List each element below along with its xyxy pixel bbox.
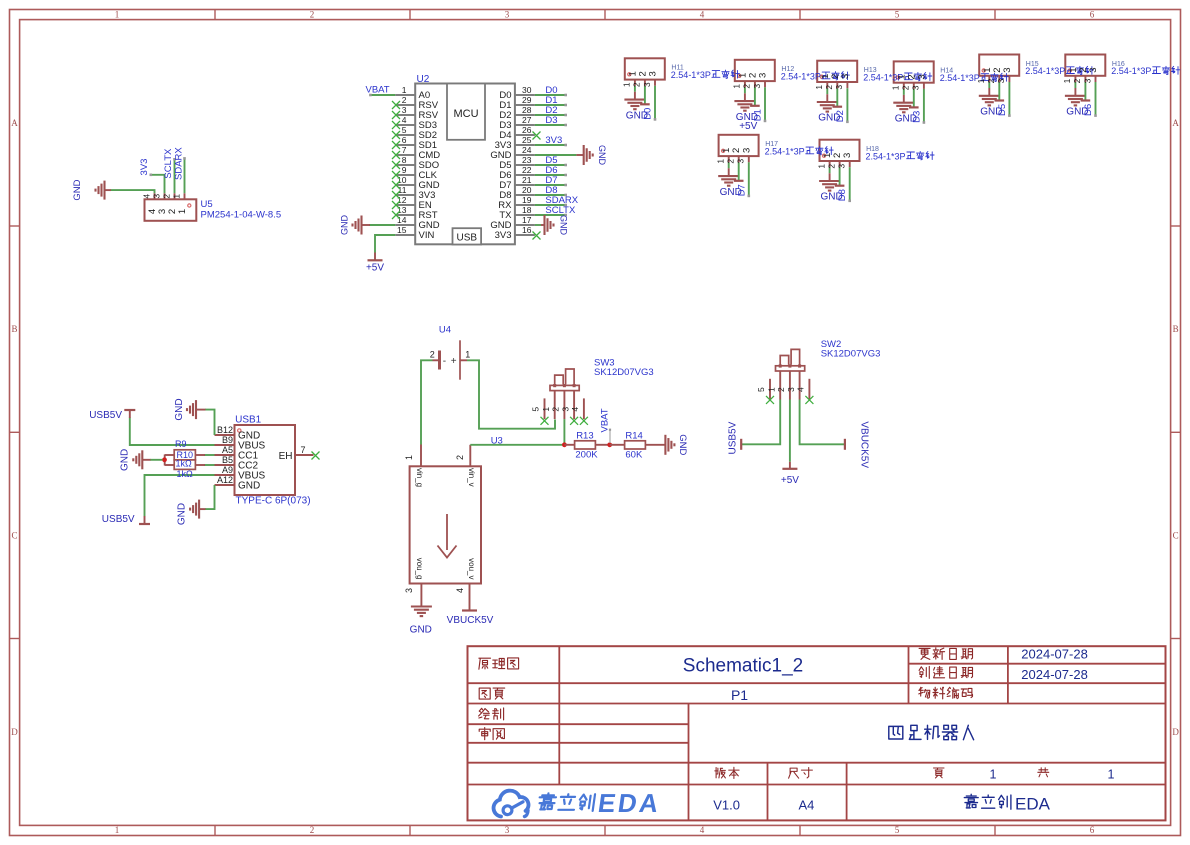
ground flag text at H15.1: [980, 107, 1002, 118]
svg-text:19: 19: [522, 195, 532, 205]
svg-text:6: 6: [1090, 825, 1095, 835]
svg-text:2: 2: [826, 164, 836, 169]
H15 value 2.54-1*3P header name: [1025, 66, 1094, 76]
ground flag text at H12.1: [736, 112, 758, 123]
power flag USB5V bottom: [102, 514, 150, 525]
svg-text:R13: R13: [576, 430, 593, 441]
svg-text:1: 1: [814, 85, 824, 90]
svg-text:1: 1: [716, 159, 726, 164]
connector USB1 TYPE-C 6P(073): [215, 425, 314, 495]
title label: reviewed by: [479, 728, 504, 740]
title label: sheet type: [479, 658, 519, 669]
ground symbol at H17.1: [718, 168, 739, 185]
svg-text:2.54-1*3P: 2.54-1*3P: [866, 151, 906, 161]
svg-text:4: 4: [570, 407, 580, 412]
title label: version: [715, 767, 739, 778]
mcu U2: [395, 74, 535, 245]
svg-text:D0: D0: [643, 108, 654, 120]
svg-text:1: 1: [1062, 78, 1072, 83]
SW3 designator: [594, 358, 615, 369]
svg-text:18: 18: [522, 205, 532, 215]
svg-text:1kΩ: 1kΩ: [177, 469, 194, 479]
svg-text:vin_v: vin_v: [467, 468, 476, 487]
svg-text:2024-07-28: 2024-07-28: [1021, 647, 1088, 662]
power flag VBUCK5V at U3.4: [447, 603, 494, 626]
ground flag at U3.3: [410, 603, 432, 636]
net label D6 (rotated): [1083, 104, 1094, 116]
svg-text:2: 2: [402, 95, 407, 105]
svg-text:GND: GND: [410, 625, 432, 636]
svg-text:GND: GND: [677, 434, 688, 455]
svg-text:GND: GND: [120, 449, 131, 471]
wire U4.1 to SW3.1: [467, 360, 555, 428]
svg-text:3: 3: [642, 82, 652, 87]
battery U4: [430, 340, 471, 379]
R13 designator: [576, 430, 593, 441]
wire H16.3 to net D6: [1094, 82, 1097, 117]
svg-text:V1.0: V1.0: [713, 798, 740, 813]
svg-text:4: 4: [796, 387, 806, 392]
svg-text:GND: GND: [238, 481, 260, 492]
svg-text:3: 3: [736, 159, 746, 164]
svg-text:SDARX: SDARX: [174, 147, 185, 180]
svg-text:VIN: VIN: [419, 230, 435, 241]
svg-text:6: 6: [402, 135, 407, 145]
title value: update date 2024-07-28: [1021, 647, 1088, 662]
no-connect marks U2 pins 26,16: [533, 132, 541, 240]
net label SCLTX (rotated): [163, 148, 174, 179]
svg-text:2: 2: [632, 82, 642, 87]
svg-text:GND: GND: [597, 145, 607, 166]
junction VBAT divider left: [562, 442, 567, 447]
ground flag at U2.24: [576, 145, 607, 166]
svg-text:3: 3: [834, 85, 844, 90]
net label D5 (rotated): [997, 104, 1008, 116]
H14 designator label: [940, 68, 953, 75]
svg-text:2.54-1*3P: 2.54-1*3P: [765, 147, 805, 157]
svg-text:2.54-1*3P: 2.54-1*3P: [1111, 66, 1151, 76]
svg-text:USB5V: USB5V: [102, 514, 135, 525]
svg-text:2: 2: [742, 84, 752, 89]
svg-text:3: 3: [560, 407, 570, 412]
svg-text:vou_g: vou_g: [415, 558, 424, 580]
svg-text:2: 2: [455, 455, 465, 460]
ground symbol at H12.1: [734, 93, 755, 110]
svg-text:B9: B9: [222, 435, 233, 445]
svg-text:EDA: EDA: [1015, 795, 1051, 814]
svg-text:4: 4: [402, 115, 407, 125]
no-connect marks U2 left pins 2-13: [392, 101, 400, 219]
connector U5 PM254-1-04-W-8.5: [141, 193, 196, 221]
regulator U3: [404, 445, 481, 604]
svg-text:1: 1: [732, 84, 742, 89]
connector H13 (2.54 1x3 header): [817, 61, 857, 88]
wire H14.3 to net D3: [923, 89, 926, 124]
H12 value 2.54-1*3P header name: [781, 72, 850, 82]
JLCEDA logo text: [537, 788, 663, 818]
svg-text:2: 2: [430, 350, 435, 360]
net label VBAT: [366, 85, 390, 96]
svg-text:1: 1: [115, 10, 120, 20]
svg-text:3: 3: [911, 85, 921, 90]
svg-text:1: 1: [766, 387, 776, 392]
svg-text:2: 2: [824, 85, 834, 90]
net label SDARX: [545, 195, 578, 206]
svg-text:2.54-1*3P: 2.54-1*3P: [940, 73, 980, 83]
ground flag at U5.4: [72, 179, 111, 200]
svg-text:B: B: [1173, 324, 1179, 334]
power flag VBUCK5V at SW2.3: [845, 421, 870, 468]
svg-text:6: 6: [1090, 10, 1095, 20]
ground flag text at H18.1: [821, 192, 843, 203]
svg-text:EH: EH: [279, 451, 293, 462]
svg-text:200K: 200K: [575, 450, 598, 461]
ground symbol at H14.1: [893, 95, 914, 112]
net label D7 (rotated): [736, 184, 747, 196]
no-connect marks SW3 pins 5,3,4: [541, 417, 588, 425]
svg-text:1kΩ: 1kΩ: [176, 459, 193, 469]
svg-text:60K: 60K: [625, 450, 643, 461]
ground flag text at H13.1: [818, 113, 840, 124]
svg-text:+5V: +5V: [739, 121, 757, 132]
wire H16.2 to +5V flag bar: [1081, 82, 1091, 101]
svg-text:GND: GND: [559, 215, 569, 236]
wire H11.2 to +5V flag bar: [640, 86, 650, 105]
svg-text:3: 3: [916, 74, 927, 79]
wire H16.1 to GND: [1074, 82, 1076, 88]
svg-text:1: 1: [990, 768, 997, 782]
H16 designator label: [1112, 61, 1125, 68]
JLCEDA logo cloud: [494, 791, 529, 817]
power flag +5V at SW2.2: [781, 462, 799, 486]
svg-text:2: 2: [310, 825, 315, 835]
svg-text:3: 3: [842, 153, 853, 158]
wire USB1.B12 to GND: [205, 410, 215, 435]
resistor R14: [610, 441, 665, 449]
svg-text:GND: GND: [177, 503, 188, 525]
wire U2.15 to +5V: [375, 235, 395, 253]
U4 designator: [439, 325, 451, 336]
H17 value 2.54-1*3P header name: [765, 147, 834, 157]
power flag +5V text at H12.2: [739, 121, 757, 132]
no-connect marks SW2 pins 5,4: [766, 396, 813, 404]
svg-text:3: 3: [402, 105, 407, 115]
svg-text:3: 3: [151, 194, 161, 199]
svg-text:22: 22: [522, 165, 532, 175]
wire H13.1 to GND: [826, 88, 828, 94]
wire junction to GND: [150, 459, 162, 461]
wire USB1.B5 to R10: [204, 464, 215, 466]
connector H15 (2.54 1x3 header): [979, 55, 1019, 83]
svg-text:A12: A12: [217, 475, 233, 485]
wire SW2.3 to VBUCK5V: [800, 400, 845, 445]
net label D8 (rotated): [837, 189, 848, 201]
svg-text:-: -: [443, 356, 446, 367]
svg-text:3: 3: [404, 588, 414, 593]
svg-text:D2: D2: [835, 110, 846, 122]
SW2 designator: [821, 339, 842, 350]
svg-text:2: 2: [1072, 78, 1082, 83]
svg-text:24: 24: [522, 145, 532, 155]
net label D3: [545, 115, 557, 126]
wire U5.1 to SDARX: [183, 157, 186, 193]
wire USB1.A5 to R9: [204, 454, 215, 456]
wire H15.1 to GND: [988, 82, 990, 88]
svg-text:EDA: EDA: [596, 788, 663, 818]
H13 pin number texts: [814, 74, 851, 90]
svg-text:D8: D8: [837, 189, 848, 201]
svg-text:1: 1: [891, 85, 901, 90]
ground symbol at H13.1: [817, 94, 838, 111]
ground symbol at H15.1: [979, 88, 1000, 105]
net label VBAT stub: [609, 429, 611, 443]
H17 pin number texts: [716, 148, 753, 164]
svg-text:28: 28: [522, 105, 532, 115]
connector H11 (2.54 1x3 header): [625, 58, 665, 86]
ground flag text at H16.1: [1066, 107, 1088, 118]
svg-text:TYPE-C 6P(073): TYPE-C 6P(073): [236, 496, 311, 507]
H18 designator label: [866, 146, 879, 153]
H11 pin number texts: [622, 71, 659, 87]
svg-text:1: 1: [1108, 768, 1115, 782]
svg-text:29: 29: [522, 95, 532, 105]
svg-text:GND: GND: [340, 215, 350, 236]
H16 pin number texts: [1062, 67, 1099, 83]
svg-text:B: B: [11, 324, 17, 334]
svg-text:5: 5: [756, 387, 766, 392]
svg-text:4: 4: [700, 825, 705, 835]
svg-text:3: 3: [741, 148, 752, 153]
ground symbol at H18.1: [819, 173, 840, 190]
svg-text:2: 2: [901, 85, 911, 90]
connector H18 (2.54 1x3 header): [820, 140, 860, 168]
svg-text:B12: B12: [217, 425, 233, 435]
wire H13.2 to +5V flag bar: [833, 88, 843, 107]
svg-text:1: 1: [541, 407, 551, 412]
switch SW2 SK12D07VG3: [756, 349, 809, 399]
svg-text:25: 25: [522, 135, 532, 145]
wire H12.1 to GND: [744, 87, 746, 93]
svg-text:A4: A4: [798, 798, 814, 813]
svg-text:SCLTX: SCLTX: [163, 148, 174, 179]
wire H17.1 to GND: [728, 162, 730, 168]
wire H11.3 to net D0: [654, 86, 657, 121]
U5 value PM254-1-04-W-8.5: [201, 209, 282, 220]
wire U5.4 to GND: [111, 190, 155, 193]
H17 designator label: [765, 141, 778, 148]
svg-text:VBUCK5V: VBUCK5V: [447, 615, 494, 626]
svg-text:SK12D07VG3: SK12D07VG3: [594, 367, 654, 378]
wire U3.2 to R13 junction: [470, 444, 563, 446]
H11 designator label: [671, 65, 683, 72]
svg-text:U2: U2: [417, 74, 430, 85]
svg-text:+5V: +5V: [781, 475, 799, 486]
wire U2.30 to net D0: [535, 94, 567, 97]
svg-text:5: 5: [531, 407, 541, 412]
ground flag at USB1.A12: [177, 500, 206, 526]
wire SW2.2 to +5V: [789, 400, 791, 462]
R14 designator: [625, 430, 642, 441]
H12 designator label: [781, 66, 794, 73]
wire U2.25 to net 3V3: [535, 144, 567, 147]
svg-text:15: 15: [397, 225, 407, 235]
wire U2.24 to GND: [535, 154, 577, 156]
resistor R13: [564, 441, 609, 449]
svg-text:4: 4: [700, 10, 705, 20]
wire H17.3 to net D7: [748, 162, 751, 197]
junction R9/R10 common node: [162, 457, 167, 462]
wire H18.1 to GND: [829, 167, 831, 173]
svg-text:4: 4: [455, 588, 465, 593]
svg-text:U4: U4: [439, 325, 451, 336]
svg-text:3: 3: [837, 164, 847, 169]
svg-text:GND: GND: [72, 179, 83, 200]
svg-text:VBAT: VBAT: [600, 408, 611, 432]
ground symbol at H11.1: [624, 92, 645, 109]
svg-text:PM254-1-04-W-8.5: PM254-1-04-W-8.5: [201, 209, 282, 220]
net label D2: [545, 105, 557, 116]
H15 designator label: [1026, 61, 1039, 68]
ground flag text at H11.1: [626, 110, 648, 121]
title value: A4: [798, 798, 814, 813]
svg-text:8: 8: [402, 155, 407, 165]
title value: Schematic1_2: [683, 656, 803, 677]
H12 pin number texts: [732, 73, 769, 89]
R14 value 60K: [625, 450, 643, 461]
SW2 value SK12D07VG3: [821, 349, 881, 360]
resistor R10: [165, 455, 205, 470]
svg-text:3: 3: [1088, 67, 1099, 72]
wire H14.2 to +5V flag bar: [909, 89, 919, 108]
title label: page: [934, 768, 945, 778]
svg-text:2: 2: [726, 159, 736, 164]
svg-text:5: 5: [895, 10, 900, 20]
net label D1: [545, 95, 557, 106]
wire U4.2 to U3.1: [421, 360, 433, 444]
wire U5.2 to SCLTX: [173, 158, 176, 193]
wire H15.2 to +5V flag bar: [995, 82, 1005, 101]
wire U2.14 to GND: [369, 224, 395, 226]
wire SW2.1 to USB5V: [741, 400, 780, 445]
svg-text:3V3: 3V3: [139, 159, 150, 176]
svg-text:9: 9: [402, 165, 407, 175]
svg-text:USB5V: USB5V: [89, 410, 122, 421]
svg-text:5: 5: [402, 125, 407, 135]
svg-text:3: 3: [758, 73, 769, 78]
svg-text:3: 3: [840, 74, 851, 79]
title value: create date 2024-07-28: [1021, 667, 1088, 682]
svg-text:23: 23: [522, 155, 532, 165]
wire U5.3 to 3V3: [150, 174, 165, 194]
svg-text:3: 3: [505, 10, 510, 20]
svg-text:1: 1: [177, 209, 188, 214]
title label: drawn by: [479, 708, 504, 720]
net label SDARX (rotated): [174, 147, 185, 180]
U5 designator: [201, 199, 213, 210]
connector H14 (2.54 1x3 header): [894, 61, 934, 89]
title block table: [468, 646, 1166, 820]
svg-text:1: 1: [976, 78, 986, 83]
title value: P1: [731, 687, 748, 703]
net label VBAT (rotated): [600, 408, 611, 432]
net label D6: [545, 165, 557, 176]
title label: sheet page: [479, 688, 505, 699]
title value: page 1: [990, 768, 997, 782]
svg-text:+: +: [451, 356, 457, 367]
svg-text:D: D: [11, 727, 18, 737]
svg-text:2.54-1*3P: 2.54-1*3P: [781, 72, 821, 82]
wire U2.23 to net D5: [535, 164, 567, 167]
wire SW3.2 down to VBAT node: [563, 419, 565, 445]
svg-text:C: C: [1173, 531, 1179, 541]
net label D5: [545, 155, 557, 166]
title label: update date: [919, 648, 972, 660]
title value: V1.0: [713, 798, 740, 813]
USB1 designator: [235, 415, 262, 426]
H16 value 2.54-1*3P header name: [1111, 66, 1180, 76]
H14 pin number texts: [891, 74, 928, 90]
svg-text:1: 1: [404, 455, 414, 460]
resistor R9: [165, 450, 205, 460]
svg-text:1: 1: [622, 82, 632, 87]
svg-text:16: 16: [522, 225, 532, 235]
title value: total 1: [1108, 768, 1115, 782]
wire U2.18 to net SCLTX: [535, 214, 567, 217]
svg-text:D3: D3: [911, 111, 922, 123]
svg-text:A5: A5: [222, 445, 233, 455]
H14 value 2.54-1*3P header name: [940, 73, 1009, 83]
junction VBAT divider right: [607, 442, 612, 447]
wire U2.27 to net D3: [535, 124, 567, 127]
ground symbol at H16.1: [1065, 88, 1086, 105]
H13 value 2.54-1*3P header name: [863, 72, 932, 82]
wire H17.2 to +5V flag bar: [734, 162, 744, 181]
svg-text:USB: USB: [457, 233, 478, 244]
svg-text:1: 1: [402, 85, 407, 95]
title label: create date: [919, 667, 972, 679]
net label 3V3 (rotated): [139, 159, 150, 176]
wire H18.2 to +5V flag bar: [835, 167, 845, 186]
wire H15.3 to net D5: [1008, 82, 1011, 117]
svg-text:3: 3: [786, 387, 796, 392]
svg-text:11: 11: [398, 185, 407, 195]
R10 value 1k: [177, 469, 194, 479]
connector H12 (2.54 1x3 header): [735, 60, 775, 88]
svg-text:27: 27: [522, 115, 532, 125]
svg-text:P1: P1: [731, 687, 748, 703]
wire USB1.A12 to GND: [205, 485, 215, 509]
wire H12.3 to net D1: [764, 87, 767, 122]
ground flag at USB1.B12: [174, 398, 206, 420]
svg-text:3: 3: [648, 71, 659, 76]
svg-text:3V3: 3V3: [495, 230, 512, 241]
title label: BOM code: [919, 687, 973, 699]
R13 value 200K: [575, 450, 598, 461]
svg-text:2: 2: [310, 10, 315, 20]
svg-text:B5: B5: [222, 455, 233, 465]
net label D2 (rotated): [835, 110, 846, 122]
ground flag right of R14: [665, 434, 688, 455]
ground flag left of R9/R10: [120, 449, 151, 471]
title label: size: [789, 768, 813, 779]
U3 designator: [491, 436, 503, 447]
svg-text:D5: D5: [997, 104, 1008, 116]
svg-text:3: 3: [752, 84, 762, 89]
svg-text:2: 2: [161, 194, 171, 199]
svg-text:C: C: [11, 531, 17, 541]
svg-text:1: 1: [171, 194, 181, 199]
svg-text:26: 26: [522, 125, 532, 135]
